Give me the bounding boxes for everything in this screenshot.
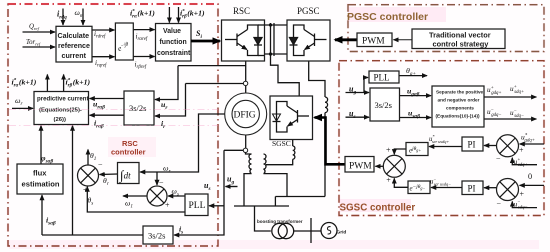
svg-text:+: + [520, 190, 525, 199]
svg-text:constraint: constraint [157, 50, 191, 57]
svg-text:SGSC controller: SGSC controller [340, 203, 416, 214]
svg-text:Separate the positive: Separate the positive [436, 90, 484, 95]
svg-text:PI: PI [468, 184, 476, 194]
svg-text:+: + [519, 146, 524, 155]
svg-text:RSC: RSC [233, 6, 250, 16]
svg-text:3s/2s: 3s/2s [129, 103, 146, 113]
svg-text:PWM: PWM [362, 37, 385, 47]
svg-text:and negative order: and negative order [438, 98, 480, 103]
svg-text:PI: PI [468, 140, 476, 150]
svg-text:Value: Value [163, 28, 181, 35]
svg-text:PGSC: PGSC [297, 6, 320, 16]
svg-text:controller: controller [111, 148, 146, 157]
svg-text:control strategy: control strategy [433, 40, 490, 49]
svg-text:function: function [160, 39, 187, 46]
svg-text:+: + [83, 186, 88, 195]
svg-text:SGSC: SGSC [272, 139, 291, 148]
svg-text:PGSC controller: PGSC controller [347, 11, 428, 23]
svg-text:(Equations(10)-(14)): (Equations(10)-(14)) [436, 114, 480, 119]
svg-text:−: − [497, 199, 502, 208]
svg-text:predictive current: predictive current [37, 96, 88, 103]
svg-text:−: − [496, 155, 501, 164]
svg-text:3s/2s: 3s/2s [148, 231, 165, 241]
svg-text:boosting transformer: boosting transformer [257, 219, 303, 224]
svg-text:+: + [386, 176, 391, 185]
svg-text:DFIG: DFIG [234, 111, 256, 121]
svg-text:flux: flux [33, 169, 47, 178]
svg-text:Traditional vector: Traditional vector [429, 31, 491, 40]
svg-text:PLL: PLL [189, 201, 206, 211]
svg-text:Calculate: Calculate [58, 32, 90, 40]
svg-text:+: + [165, 201, 170, 210]
svg-text:PLL: PLL [374, 73, 390, 83]
svg-text:−: − [159, 179, 164, 188]
svg-text:(Equations(25)-: (Equations(25)- [39, 108, 82, 114]
svg-text:PWM: PWM [349, 162, 372, 172]
svg-text:components: components [446, 106, 474, 111]
svg-text:reference: reference [58, 42, 90, 50]
svg-text:Grid: Grid [337, 230, 347, 236]
svg-text:−: − [98, 160, 103, 169]
svg-text:current: current [62, 52, 87, 60]
svg-text:estimation: estimation [22, 180, 60, 189]
svg-text:3s/2s: 3s/2s [375, 100, 392, 110]
svg-text:(26)): (26)) [54, 117, 66, 123]
svg-text:+: + [386, 146, 391, 155]
svg-text:0: 0 [528, 172, 532, 181]
